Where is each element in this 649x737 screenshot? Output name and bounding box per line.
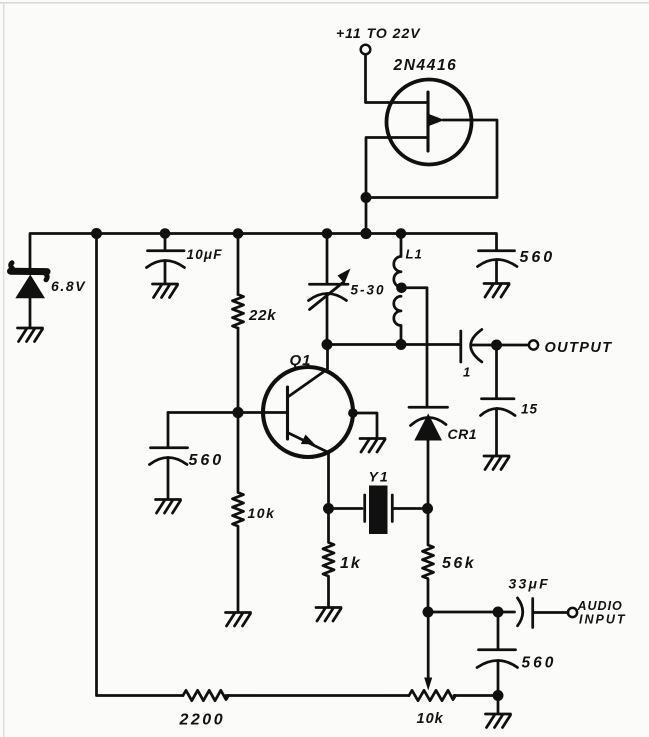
capacitor 560 top-right curved plate <box>478 260 518 267</box>
svg-text:560: 560 <box>522 655 557 672</box>
wire: crystal right lead <box>394 507 428 510</box>
svg-text:2200: 2200 <box>179 712 226 729</box>
node: rail junction x=238 <box>233 228 244 239</box>
svg-text:CR1: CR1 <box>448 426 478 442</box>
wire: 5-30 to tank node <box>326 294 329 345</box>
terminal OUTPUT <box>529 340 538 349</box>
diode CR1 triangle <box>414 414 442 441</box>
svg-text:2N4416: 2N4416 <box>393 57 458 74</box>
capacitor C1 10uF stem <box>164 234 167 251</box>
ground (10uF) <box>153 284 178 298</box>
wire: 22k to base node <box>237 328 240 412</box>
node: tank node at 5-30 bottom <box>322 339 333 350</box>
transistor 2N4416 gate arrow <box>430 114 445 125</box>
transistor Q1 emitter arrow <box>301 435 315 445</box>
wire: audio node horizontal <box>428 611 515 614</box>
svg-text:33μF: 33μF <box>509 576 550 592</box>
transistor 2N4416 source lead <box>366 138 428 198</box>
capacitor 560 curved plate <box>150 458 188 465</box>
node: Q1 shell ground junction <box>348 408 358 418</box>
wire: top supply rail <box>30 234 497 269</box>
transistor Q1 emitter lead <box>289 433 329 509</box>
capacitor 5-30 curved plate <box>309 294 347 301</box>
node: output junction <box>491 340 502 351</box>
crystal Y1 left plate <box>363 495 366 522</box>
wire: output node to 15 cap <box>495 345 498 398</box>
svg-text:1k: 1k <box>340 555 362 572</box>
wire: output cap to output terminal <box>472 344 529 347</box>
wire: varactor to crystal node <box>427 441 430 509</box>
node: gate-source tie junction <box>361 192 372 203</box>
ground (Q1 right) <box>360 439 385 453</box>
capacitor 1 curved plate <box>471 330 482 362</box>
resistor R3 1k <box>323 509 334 607</box>
wire: 33uF to audio input terminal <box>533 611 568 614</box>
potentiometer wiper arrow <box>424 678 432 691</box>
svg-text:10μF: 10μF <box>187 247 223 262</box>
wire: base node horizontal <box>168 411 288 414</box>
node: rail junction x=366 <box>360 228 371 239</box>
transistor U1 2N4416 JFET circle <box>387 80 472 165</box>
resistor R1 22k <box>233 295 244 329</box>
capacitor C7 33uF curved plate <box>518 598 523 626</box>
capacitor C4 1 straight plate <box>459 331 462 362</box>
inductor L1 <box>394 234 401 345</box>
ground (10k left) <box>226 613 251 627</box>
svg-text:560: 560 <box>520 249 556 266</box>
svg-text:+11 TO 22V: +11 TO 22V <box>336 25 421 41</box>
svg-text:1: 1 <box>463 365 470 380</box>
node: audio junction <box>493 607 504 618</box>
node: emitter-crystal junction <box>323 503 334 514</box>
node: 56k bottom junction <box>423 607 434 618</box>
wire: 10uF to ground <box>164 261 167 284</box>
wire: bottom right to ground <box>497 696 500 714</box>
svg-text:10k: 10k <box>417 711 444 727</box>
diode zener triangle <box>15 275 45 299</box>
svg-text:L1: L1 <box>406 247 423 262</box>
svg-text:Y1: Y1 <box>369 469 390 485</box>
capacitor C6 560 top-right top plate <box>479 249 515 252</box>
potentiometer R6 10k element <box>409 690 456 700</box>
capacitor 33uF straight plate <box>531 599 534 628</box>
wire: supply terminal to FET drain <box>366 55 429 103</box>
capacitor 10uF curved plate <box>147 261 185 268</box>
svg-text:INPUT: INPUT <box>579 613 627 627</box>
transistor 2N4416 channel bar <box>426 92 429 151</box>
ground (560 top-right) <box>484 284 509 298</box>
potentiometer wiper wire <box>427 612 430 678</box>
node: rail junction x=327 <box>322 228 333 239</box>
ground (bottom right) <box>486 714 511 728</box>
ground (zener) <box>18 328 43 342</box>
svg-text:AUDIO: AUDIO <box>577 599 623 613</box>
capacitor C5 15 top plate <box>482 397 515 400</box>
node: rail junction x=165 <box>160 228 171 239</box>
wire: bottom rail middle <box>226 694 409 697</box>
svg-text:560: 560 <box>189 452 225 469</box>
svg-text:56k: 56k <box>442 555 476 572</box>
svg-text:OUTPUT: OUTPUT <box>545 340 613 356</box>
capacitor 5-30 arrowhead <box>338 269 351 284</box>
wire: base node down to 560 cap <box>167 413 170 448</box>
resistor R5 2200 <box>183 690 229 700</box>
svg-text:10k: 10k <box>248 505 276 521</box>
svg-text:22k: 22k <box>248 307 276 324</box>
wire: rail to 22k <box>237 234 240 295</box>
wire: 560 bottom to bottom rail <box>497 661 500 696</box>
svg-text:15: 15 <box>521 402 538 417</box>
wire: audio node to 560 cap <box>497 612 500 649</box>
capacitor C2 560 top plate <box>151 446 188 449</box>
transistor 2N4416 gate lead with wire loop <box>366 120 497 234</box>
node: tank node at L1 bottom <box>396 339 407 350</box>
ground (15) <box>484 456 509 470</box>
resistor R2 10k <box>233 413 244 612</box>
ground (560 left) <box>156 500 181 514</box>
wire: zener anode to ground <box>29 298 32 328</box>
node: bottom-right rail junction <box>493 690 504 701</box>
ground (1k) <box>316 608 341 622</box>
node: crystal-varactor junction <box>422 503 433 514</box>
node: base junction <box>232 407 243 418</box>
wire: bottom rail right <box>454 694 498 697</box>
transistor Q1 circle <box>263 367 353 457</box>
wire: left feedback bus <box>97 234 184 696</box>
resistor R4 56k <box>423 509 434 613</box>
wire: tank node horizontal to output cap <box>327 343 460 346</box>
wire: 560 to ground <box>167 458 170 499</box>
diode CR1 varactor straight plate <box>409 406 448 409</box>
scan border left <box>3 2 4 737</box>
scan border top <box>0 2 649 4</box>
wire: Q1 to right ground <box>353 413 377 438</box>
diode CR1 curved plate <box>411 417 447 425</box>
crystal Y1 body <box>369 486 388 535</box>
capacitor C3 5-30 top plate <box>310 283 349 286</box>
wire: 560 top-right to ground <box>495 260 498 283</box>
svg-text:Q1: Q1 <box>290 352 312 369</box>
node: rail junction x=401 <box>396 228 407 239</box>
transistor Q1 base bar <box>286 387 289 439</box>
diode VR1 zener 6.8V bar <box>11 268 48 275</box>
node: rail junction x=96.5 <box>91 228 102 239</box>
terminal AUDIO INPUT <box>568 608 577 617</box>
capacitor 560 bottom curved plate <box>477 661 518 668</box>
crystal Y1 right plate <box>391 495 394 522</box>
node: L1 tap <box>396 283 407 294</box>
capacitor C8 560 bottom top plate <box>479 648 516 651</box>
wire: rail to variable cap <box>326 234 329 284</box>
wire: L1 tap to varactor <box>402 288 428 406</box>
terminal +11 TO 22V <box>361 45 371 55</box>
capacitor 5-30 arrow <box>310 283 344 310</box>
wire: crystal left lead <box>329 507 363 510</box>
wire: 15 to ground <box>495 409 498 456</box>
capacitor 15 curved plate <box>481 409 516 416</box>
svg-text:6.8V: 6.8V <box>51 278 86 294</box>
capacitor 10uF top plate <box>148 249 185 252</box>
transistor Q1 collector lead <box>289 345 328 397</box>
svg-text:5-30: 5-30 <box>351 283 386 298</box>
